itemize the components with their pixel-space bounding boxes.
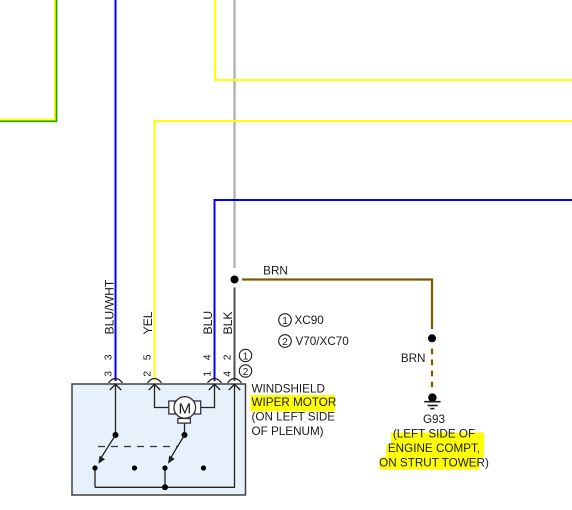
- connector arc wire1: [109, 379, 123, 383]
- svg-text:ON STRUT TOWER): ON STRUT TOWER): [379, 457, 489, 470]
- svg-text:4: 4: [202, 354, 214, 360]
- connector arrows (male pins): [110, 384, 240, 390]
- wire BLU/WHT vertical: [115, 0, 117, 381]
- node splice dot on gray wire: [231, 276, 239, 284]
- svg-text:BRN: BRN: [263, 264, 288, 277]
- svg-text:2: 2: [142, 371, 154, 377]
- svg-text:YEL: YEL: [141, 311, 155, 334]
- svg-text:1: 1: [202, 371, 214, 377]
- svg-text:ENGINE COMPT,: ENGINE COMPT,: [388, 442, 480, 455]
- switch2 lever arrowhead: [168, 456, 175, 464]
- switch2 pivot dot: [182, 432, 188, 438]
- wire GRN/YEL yellow stripe: [0, 0, 55, 120]
- connector arcs (female terminals): [109, 379, 242, 383]
- wire motor stem to switch2: [184, 424, 186, 436]
- connector arrow wire2: [149, 384, 160, 390]
- wire BRN dashed segment: [431, 349, 433, 390]
- wire GRY vertical (top, light gray): [233, 0, 235, 268]
- svg-text:5: 5: [142, 354, 154, 360]
- svg-text:BRN: BRN: [401, 352, 426, 365]
- switch1 pivot dot: [113, 432, 119, 438]
- svg-text:BLU: BLU: [201, 311, 215, 335]
- svg-text:G93: G93: [423, 413, 445, 426]
- circled 1 XC90 note: [279, 314, 292, 327]
- svg-text:V70/XC70: V70/XC70: [296, 335, 350, 348]
- wire GRN/YEL green stripe: [0, 0, 57, 121]
- svg-text:WINDSHIELD: WINDSHIELD: [252, 382, 325, 395]
- circled 1 at pin (variant): [239, 349, 251, 361]
- wire contact3 to bottom bus: [164, 468, 166, 487]
- wire BLK vertical (dot to motor box): [234, 288, 236, 382]
- wiper motor box: [72, 384, 246, 495]
- connector arc wire3: [208, 379, 222, 383]
- circled 2 V70/XC70 note: [279, 335, 292, 348]
- connector arrow wire4: [229, 384, 240, 390]
- node junction on bottom bus: [162, 484, 168, 490]
- svg-text:4: 4: [222, 371, 234, 377]
- svg-text:1: 1: [243, 351, 249, 362]
- svg-text:(ON LEFT SIDE: (ON LEFT SIDE: [252, 411, 336, 424]
- svg-text:BLU/WHT: BLU/WHT: [103, 279, 117, 334]
- svg-text:2: 2: [243, 367, 249, 378]
- svg-text:2: 2: [222, 354, 234, 360]
- wire inner pin4 down right side to bottom bus: [95, 384, 235, 487]
- switch1 lever: [99, 435, 115, 461]
- switch1 lever arrowhead: [98, 456, 105, 464]
- motor M symbol: [169, 397, 201, 423]
- mechanical link dashed: [98, 446, 178, 448]
- contact dot C: [162, 465, 167, 470]
- svg-text:2: 2: [282, 337, 288, 348]
- svg-text:WIPER MOTOR: WIPER MOTOR: [252, 396, 337, 409]
- inner wires: [95, 384, 235, 487]
- contact dot D: [201, 465, 206, 470]
- connector arc wire2: [148, 379, 162, 383]
- node dot on brown wire: [428, 334, 436, 342]
- wire inner pin2 to motor left brush: [155, 384, 169, 407]
- svg-text:BLK: BLK: [221, 311, 235, 334]
- wire BLU (horizontal then down into box): [215, 200, 572, 381]
- switch2 lever: [169, 435, 185, 461]
- svg-text:1: 1: [282, 316, 288, 327]
- contact dot B: [132, 465, 137, 470]
- ground G93 symbol: [424, 393, 440, 408]
- wire inner pin1 to motor right brush: [201, 384, 215, 407]
- svg-text:(LEFT SIDE OF: (LEFT SIDE OF: [393, 428, 475, 441]
- svg-text:OF PLENUM): OF PLENUM): [252, 425, 324, 438]
- wire YEL middle (horizontal then down into box): [155, 121, 572, 381]
- svg-text:3: 3: [103, 354, 115, 360]
- circled 2 at pin (variant): [239, 365, 251, 377]
- connector arc wire4: [228, 379, 242, 383]
- highlight WIPER MOTOR: [251, 395, 336, 411]
- wire contact1 to bottom bus: [94, 468, 96, 487]
- svg-text:M: M: [178, 401, 191, 418]
- highlight ground location text: [380, 433, 485, 470]
- connector arrow wire3: [209, 384, 220, 390]
- svg-text:XC90: XC90: [295, 314, 325, 327]
- wire inner pin3 down to switch1: [115, 384, 117, 435]
- contact dot A: [92, 465, 97, 470]
- svg-text:3: 3: [103, 371, 115, 377]
- wire BRN (splice to ground drop): [242, 280, 432, 330]
- connector arrow wire1: [110, 384, 121, 390]
- wire YEL upper (corner at top right): [215, 0, 572, 80]
